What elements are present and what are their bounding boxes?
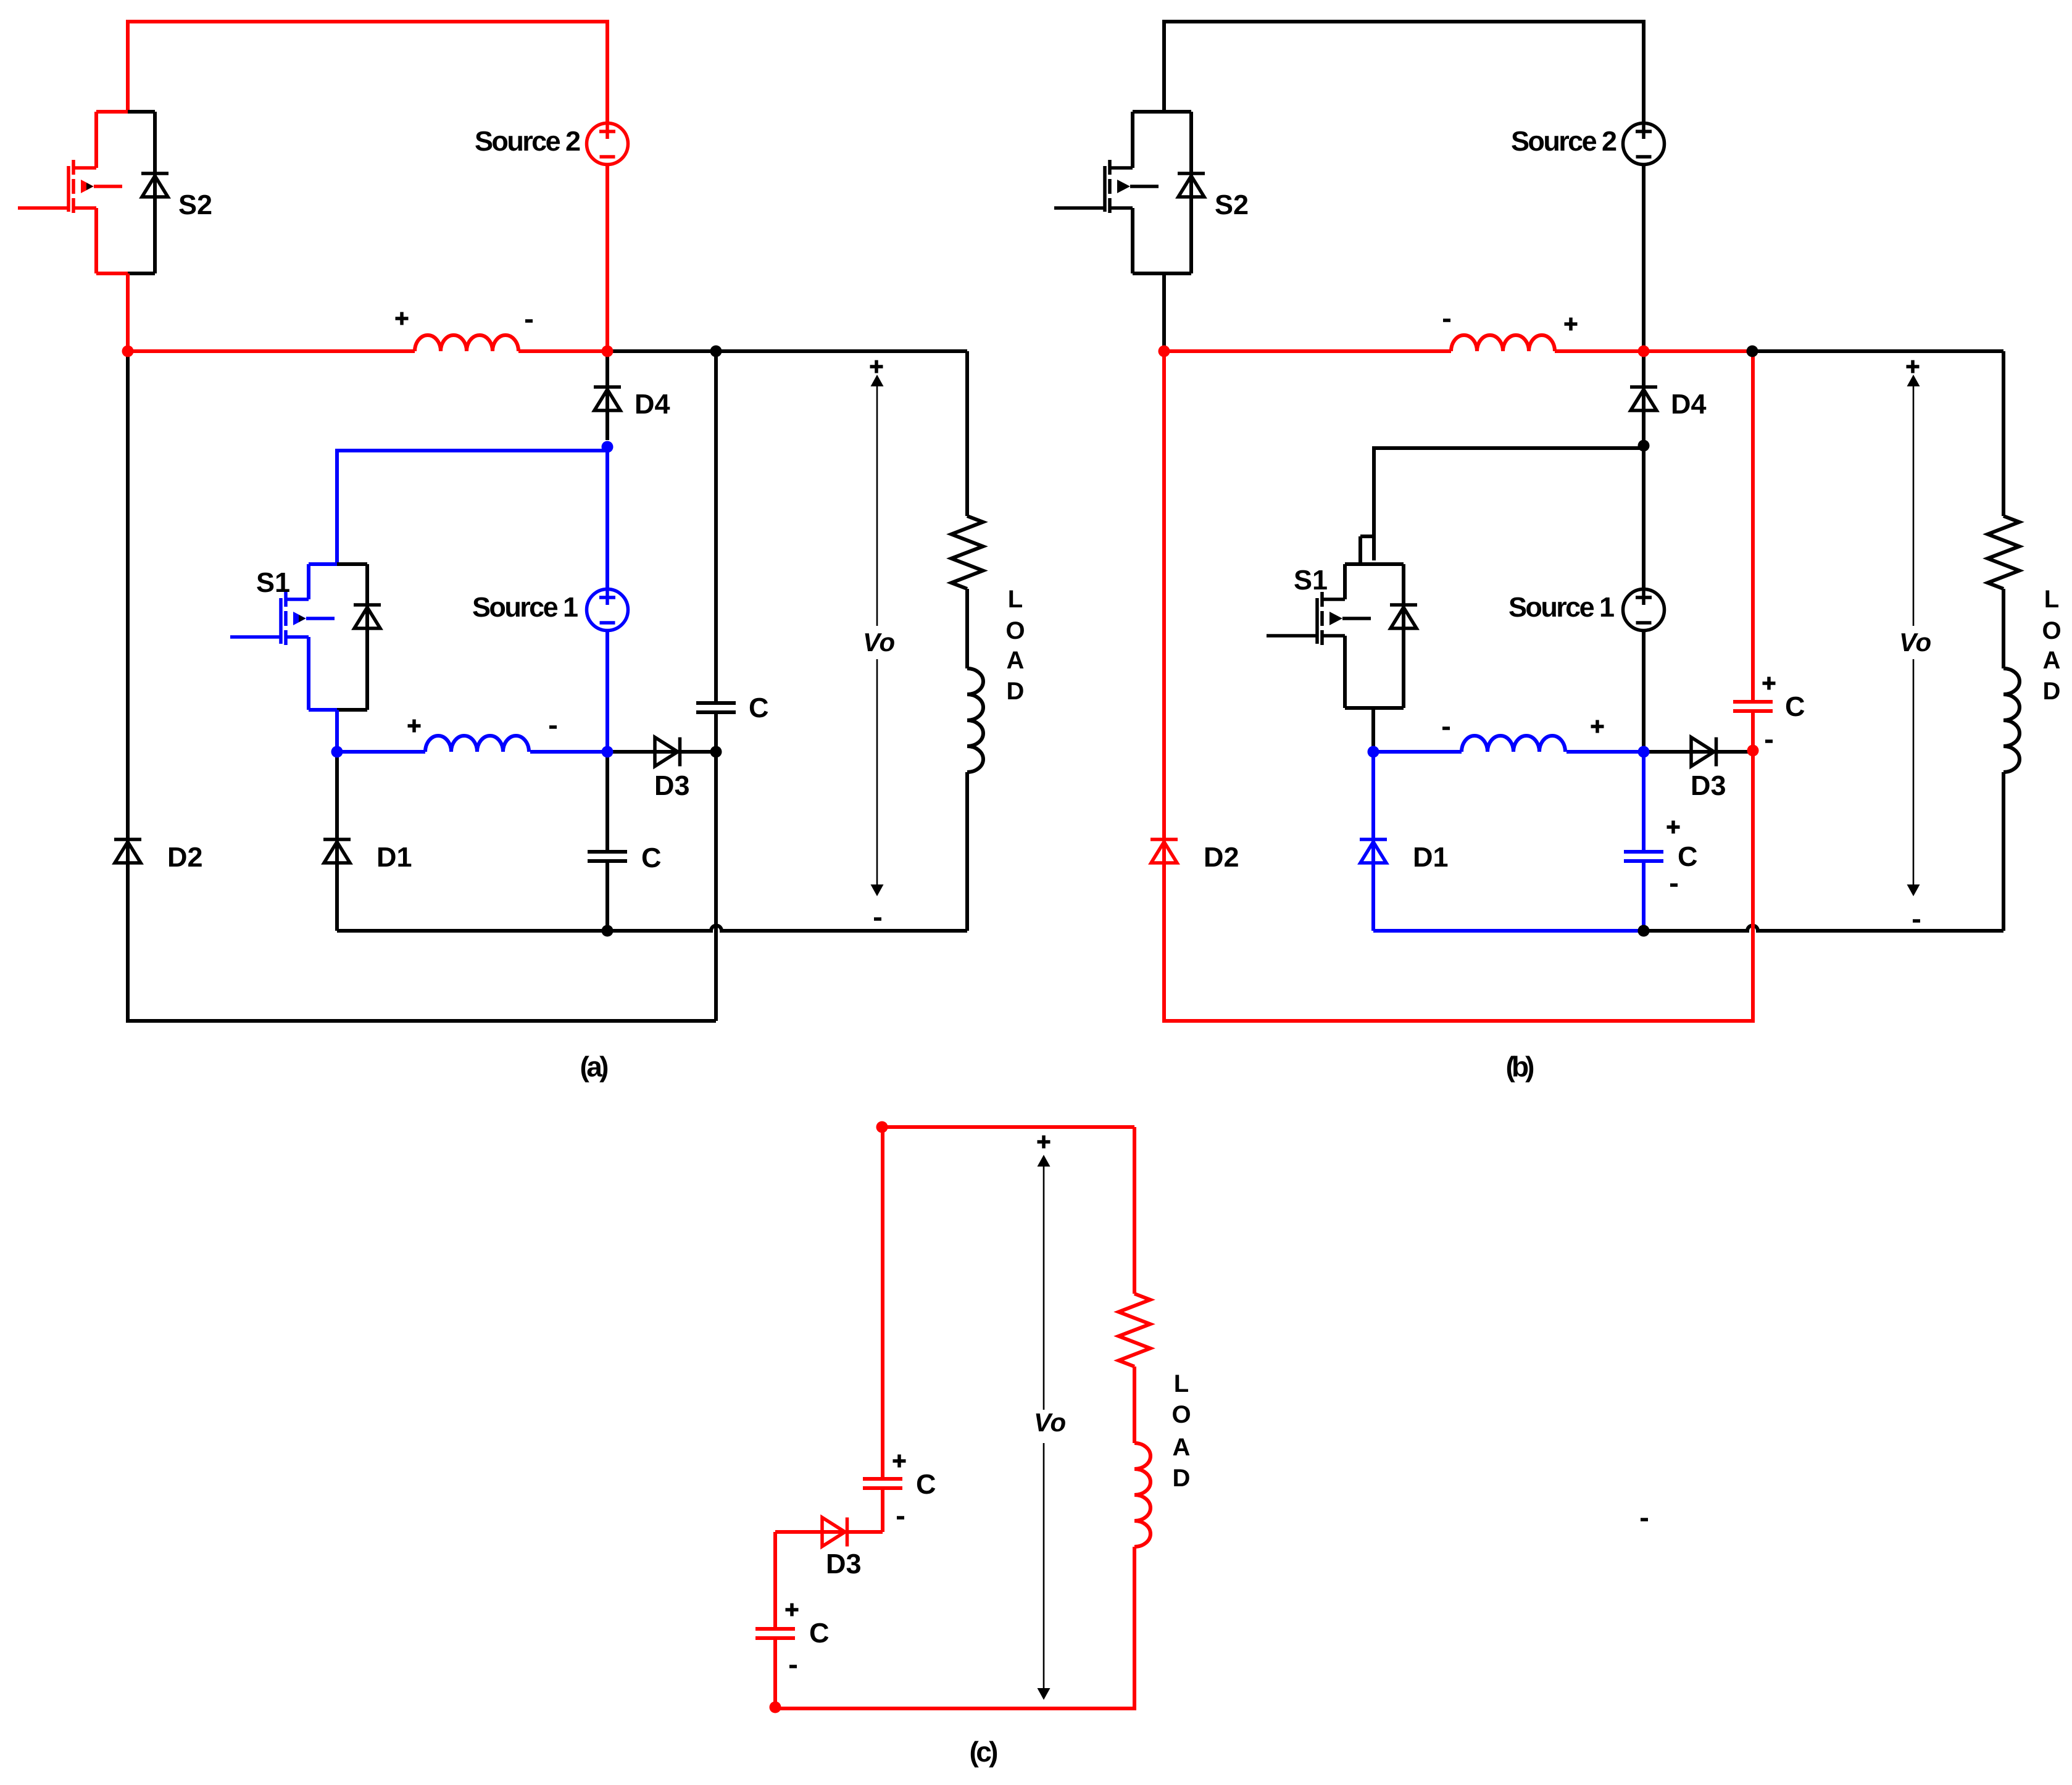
wire: source2 to node (b) bbox=[1642, 165, 1646, 351]
svg-text:Source 2: Source 2 bbox=[1511, 125, 1617, 157]
source: Source 1 (a) bbox=[587, 589, 628, 631]
source: Source 1 (b) bbox=[1623, 589, 1665, 631]
inductor LOAD (a) bbox=[967, 668, 983, 772]
svg-text:C: C bbox=[1678, 841, 1698, 872]
svg-text:Vo: Vo bbox=[863, 628, 895, 657]
wire bbox=[1054, 206, 1105, 210]
Vo arrow (b) bbox=[1913, 378, 1915, 893]
source: Source 2 (a) bbox=[587, 123, 628, 165]
wire: S1 source lead (b) bbox=[1371, 708, 1375, 752]
inductor LOAD (c) bbox=[1134, 1443, 1150, 1547]
wire: (b) top inner black with tab bbox=[1360, 448, 1644, 564]
capacitor C lower (c) bbox=[755, 1627, 795, 1631]
svg-text:A: A bbox=[1173, 1434, 1191, 1461]
capacitor C upper (c) bbox=[863, 1477, 902, 1481]
transistor S1 (a) bbox=[230, 564, 381, 710]
node: D3 cathode (b) red bbox=[1747, 745, 1759, 757]
wire bbox=[307, 564, 310, 599]
transistor S1 (b) bbox=[1267, 564, 1417, 708]
wire bbox=[1402, 564, 1405, 708]
svg-text:A: A bbox=[1007, 647, 1025, 674]
diode D3 (b) bbox=[1691, 738, 1714, 767]
svg-text:Source 1: Source 1 bbox=[1508, 591, 1615, 623]
label + Vo (c) bbox=[1038, 1136, 1051, 1149]
source: Source 2 (b) bbox=[1623, 123, 1665, 165]
wire: S2 source to node (b) bbox=[1162, 273, 1166, 351]
diode D3 (a) bbox=[655, 738, 678, 767]
wire: (a) inner bottom with hop bbox=[337, 926, 967, 931]
node: (b) blue left bbox=[1368, 746, 1379, 758]
wire bbox=[1323, 597, 1345, 601]
wire: (b) inner bottom black with hop bbox=[1644, 926, 2003, 931]
label - Vo (a) bbox=[874, 917, 881, 921]
svg-text:C: C bbox=[1785, 691, 1805, 722]
capacitor C lower (a) bbox=[588, 850, 627, 854]
wire: (c) D3 row bbox=[775, 1530, 883, 1534]
wire: source1 branch (b) bbox=[1642, 446, 1646, 752]
wire bbox=[1131, 112, 1134, 168]
resistor LOAD (b) bbox=[1988, 516, 2020, 589]
wire: (b) blue bottom bbox=[1373, 929, 1644, 933]
wire: S1 source lead blue bbox=[335, 710, 339, 752]
label + of L1 bbox=[408, 720, 421, 733]
label + C lower (c) bbox=[786, 1604, 799, 1616]
wire: (c) left lower bbox=[773, 1532, 777, 1708]
wire: (a) node to load top bbox=[607, 349, 967, 353]
label - C upper (c) bbox=[897, 1516, 904, 1520]
svg-text:O: O bbox=[1005, 617, 1025, 644]
wire bbox=[230, 635, 281, 639]
label - of L1 bbox=[549, 725, 557, 729]
diode D2 (b) red bbox=[1150, 838, 1178, 841]
wire bbox=[128, 272, 155, 275]
arrowhead up bbox=[871, 375, 884, 386]
wire bbox=[1267, 634, 1317, 638]
wire bbox=[1343, 636, 1347, 708]
label + Vo (a) bbox=[870, 360, 883, 373]
transistor S2 (b) bbox=[1054, 112, 1205, 273]
svg-text:A: A bbox=[2043, 647, 2061, 674]
wire bbox=[2002, 351, 2005, 516]
arrowhead up bbox=[1907, 375, 1920, 386]
resistor LOAD (a) bbox=[952, 516, 983, 589]
diode D1 (b) bbox=[1360, 838, 1387, 841]
wire bbox=[2002, 589, 2005, 668]
wire: (b) left outer red loop bbox=[1164, 351, 1753, 1021]
svg-text:Source 1: Source 1 bbox=[472, 591, 578, 623]
wire: source2 to node bbox=[605, 165, 609, 351]
capacitor C lower (b) blue bbox=[1624, 850, 1663, 854]
arrowhead down bbox=[1907, 884, 1920, 896]
wire bbox=[1133, 272, 1164, 275]
resistor LOAD (c) bbox=[1119, 1294, 1150, 1367]
wire: D3 (a) bbox=[607, 750, 716, 754]
wire bbox=[337, 708, 367, 712]
svg-text:(a): (a) bbox=[580, 1051, 609, 1083]
wire bbox=[1131, 208, 1134, 273]
wire bbox=[94, 112, 98, 168]
node: below D4 blue bbox=[602, 441, 614, 453]
wire bbox=[128, 110, 155, 114]
svg-text:C: C bbox=[749, 692, 769, 723]
svg-text:S2: S2 bbox=[178, 189, 212, 220]
stray minus mark bbox=[1641, 1518, 1648, 1521]
svg-text:D1: D1 bbox=[1413, 841, 1449, 873]
wire bbox=[2002, 772, 2005, 931]
svg-text:L: L bbox=[1174, 1370, 1189, 1397]
label - of L2 (b) bbox=[1443, 318, 1450, 322]
svg-text:D3: D3 bbox=[654, 770, 690, 801]
wire: (c) top bbox=[882, 1125, 1134, 1129]
arrowhead up bbox=[1038, 1155, 1051, 1167]
wire bbox=[1345, 706, 1373, 710]
wire: (b) top loop black bbox=[1164, 22, 1644, 123]
wire bbox=[286, 635, 309, 639]
diode D2 bbox=[114, 838, 141, 841]
inductor L1 (a) bbox=[425, 736, 529, 752]
wire bbox=[1164, 272, 1191, 275]
label + C upper (b) bbox=[1763, 677, 1776, 690]
wire: (c) upper cap branch bbox=[881, 1127, 884, 1532]
svg-text:Vo: Vo bbox=[1899, 628, 1931, 657]
wire bbox=[1133, 1367, 1136, 1443]
wire bbox=[1323, 634, 1345, 638]
svg-text:S1: S1 bbox=[1294, 564, 1328, 596]
node: D3 cathode (a) bbox=[710, 746, 722, 758]
wire bbox=[307, 637, 310, 710]
wire: (a) blue top bbox=[337, 451, 607, 564]
capacitor C upper (a) bbox=[696, 701, 736, 705]
label - C lower (c) bbox=[789, 1665, 797, 1668]
svg-text:Source 2: Source 2 bbox=[475, 125, 581, 157]
svg-text:D2: D2 bbox=[167, 841, 203, 873]
wire bbox=[18, 206, 69, 210]
label + of L1 (b) bbox=[1591, 720, 1604, 733]
node: (a) blue left bbox=[331, 746, 343, 758]
node: (a) blue right bbox=[602, 746, 614, 758]
svg-text:C: C bbox=[809, 1617, 830, 1649]
diode D3 (c) bbox=[822, 1518, 845, 1547]
svg-text:D: D bbox=[1007, 678, 1025, 705]
Vo arrow (c) bbox=[1043, 1158, 1045, 1697]
svg-text:O: O bbox=[1171, 1401, 1191, 1428]
node: (b) mid red bbox=[1638, 346, 1650, 357]
label + Vo (b) bbox=[1907, 360, 1920, 373]
node: below D4 (b) bbox=[1638, 440, 1650, 452]
svg-text:O: O bbox=[2042, 617, 2061, 644]
wire: lower C branch (a) bbox=[605, 752, 609, 931]
node: (a) left bbox=[122, 346, 134, 357]
wire: (a) main horizontal red bbox=[128, 349, 607, 353]
wire: D1 branch blue (b) bbox=[1371, 752, 1375, 931]
label - C lower (b) bbox=[1670, 883, 1678, 887]
wire bbox=[1110, 206, 1133, 210]
wire: (a) blue horizontal bbox=[337, 750, 607, 754]
svg-text:L: L bbox=[1008, 586, 1023, 613]
svg-text:D: D bbox=[2043, 678, 2061, 705]
label + C lower (b) bbox=[1667, 821, 1680, 834]
svg-text:D: D bbox=[1173, 1465, 1191, 1492]
wire: (a) right vertical bbox=[714, 351, 718, 1021]
svg-text:D1: D1 bbox=[377, 841, 412, 873]
wire bbox=[365, 564, 369, 710]
wire: (b) main horizontal red bbox=[1164, 349, 1753, 353]
svg-text:(c): (c) bbox=[970, 1736, 999, 1768]
wire: (b) red cap branch bbox=[1751, 351, 1755, 751]
wire: (b) blue horizontal bbox=[1373, 750, 1644, 754]
inductor L1 (b) bbox=[1462, 736, 1565, 752]
wire bbox=[74, 166, 96, 170]
label - C upper (b) bbox=[1765, 739, 1773, 743]
wire bbox=[1133, 110, 1164, 114]
svg-text:Vo: Vo bbox=[1034, 1408, 1066, 1437]
wire: D3 (b) bbox=[1644, 750, 1751, 754]
wire: S2 source to node bbox=[126, 273, 130, 351]
wire bbox=[337, 562, 367, 566]
svg-text:S2: S2 bbox=[1215, 189, 1249, 220]
arrowhead down bbox=[1038, 1688, 1051, 1700]
transistor S2 bbox=[18, 112, 169, 273]
wire bbox=[1343, 564, 1347, 599]
wire+resistor+inductor: LOAD branch (a) bbox=[965, 351, 969, 516]
capacitor C upper (b) red bbox=[1733, 700, 1773, 704]
label + C upper (c) bbox=[893, 1455, 906, 1468]
node: (a) mid bbox=[602, 346, 614, 357]
wire bbox=[74, 206, 96, 210]
wire: (c) right down bbox=[1133, 1127, 1136, 1294]
svg-text:D4: D4 bbox=[1671, 388, 1707, 420]
node: top of C branch (a) bbox=[710, 346, 722, 357]
inductor LOAD (b) bbox=[2003, 668, 2020, 772]
diode D4 (b) bbox=[1630, 385, 1657, 389]
svg-text:C: C bbox=[641, 842, 662, 873]
label - of L1 (b) bbox=[1442, 726, 1450, 730]
wire bbox=[94, 208, 98, 273]
wire bbox=[1373, 706, 1404, 710]
node: (a) bottom mid bbox=[602, 925, 614, 937]
node: (c) top left bbox=[876, 1121, 888, 1133]
node: (b) bottom mid black bbox=[1638, 925, 1650, 937]
wire bbox=[96, 110, 128, 114]
inductor L2 (a) bbox=[415, 335, 518, 351]
diode D4 bbox=[594, 385, 621, 389]
svg-text:D3: D3 bbox=[1691, 770, 1726, 801]
wire bbox=[1373, 562, 1404, 566]
node: top of C branch (b) bbox=[1747, 346, 1758, 357]
svg-text:(b): (b) bbox=[1506, 1051, 1535, 1083]
node: (c) bottom left bbox=[770, 1702, 781, 1713]
wire bbox=[309, 562, 337, 566]
wire: D1 branch bbox=[335, 752, 339, 931]
wire bbox=[96, 272, 128, 275]
wire: source1 branch blue bbox=[605, 447, 609, 752]
wire: (c) right bottom bbox=[775, 1547, 1134, 1708]
arrowhead down bbox=[871, 884, 884, 896]
label - Vo (b) bbox=[1913, 919, 1920, 923]
inductor L2 (b) bbox=[1451, 335, 1555, 351]
svg-text:S1: S1 bbox=[256, 567, 290, 598]
node: (b) bottom of C lower bbox=[1638, 925, 1650, 937]
wire: (a) left outer + bottom bbox=[128, 351, 716, 1021]
diode D1 bbox=[323, 838, 351, 841]
wire: (a) top loop red bbox=[128, 22, 607, 123]
node: (b) blue right bbox=[1638, 746, 1650, 758]
wire bbox=[1189, 112, 1193, 273]
wire: (b) D4 branch bbox=[1642, 351, 1646, 443]
svg-text:D4: D4 bbox=[634, 388, 670, 420]
wire bbox=[286, 597, 309, 601]
wire bbox=[153, 112, 157, 273]
Vo arrow (a) bbox=[876, 378, 878, 893]
wire bbox=[309, 708, 337, 712]
svg-text:D2: D2 bbox=[1204, 841, 1239, 873]
label - of L2 bbox=[525, 319, 533, 323]
wire bbox=[1110, 166, 1133, 170]
label + of L2 bbox=[396, 312, 409, 325]
svg-text:L: L bbox=[2044, 586, 2059, 613]
wire bbox=[1164, 110, 1191, 114]
svg-text:C: C bbox=[916, 1468, 936, 1500]
wire: (b) node to load top bbox=[1753, 349, 2003, 353]
wire bbox=[965, 589, 969, 668]
svg-text:D3: D3 bbox=[826, 1548, 862, 1579]
wire bbox=[1345, 562, 1373, 566]
node: (b) left red bbox=[1159, 346, 1170, 357]
wire bbox=[965, 772, 969, 931]
wire: (a) D4 branch bbox=[605, 351, 609, 440]
label + of L2 (b) bbox=[1565, 318, 1578, 331]
wire: lower C branch blue (b) bbox=[1642, 752, 1646, 931]
